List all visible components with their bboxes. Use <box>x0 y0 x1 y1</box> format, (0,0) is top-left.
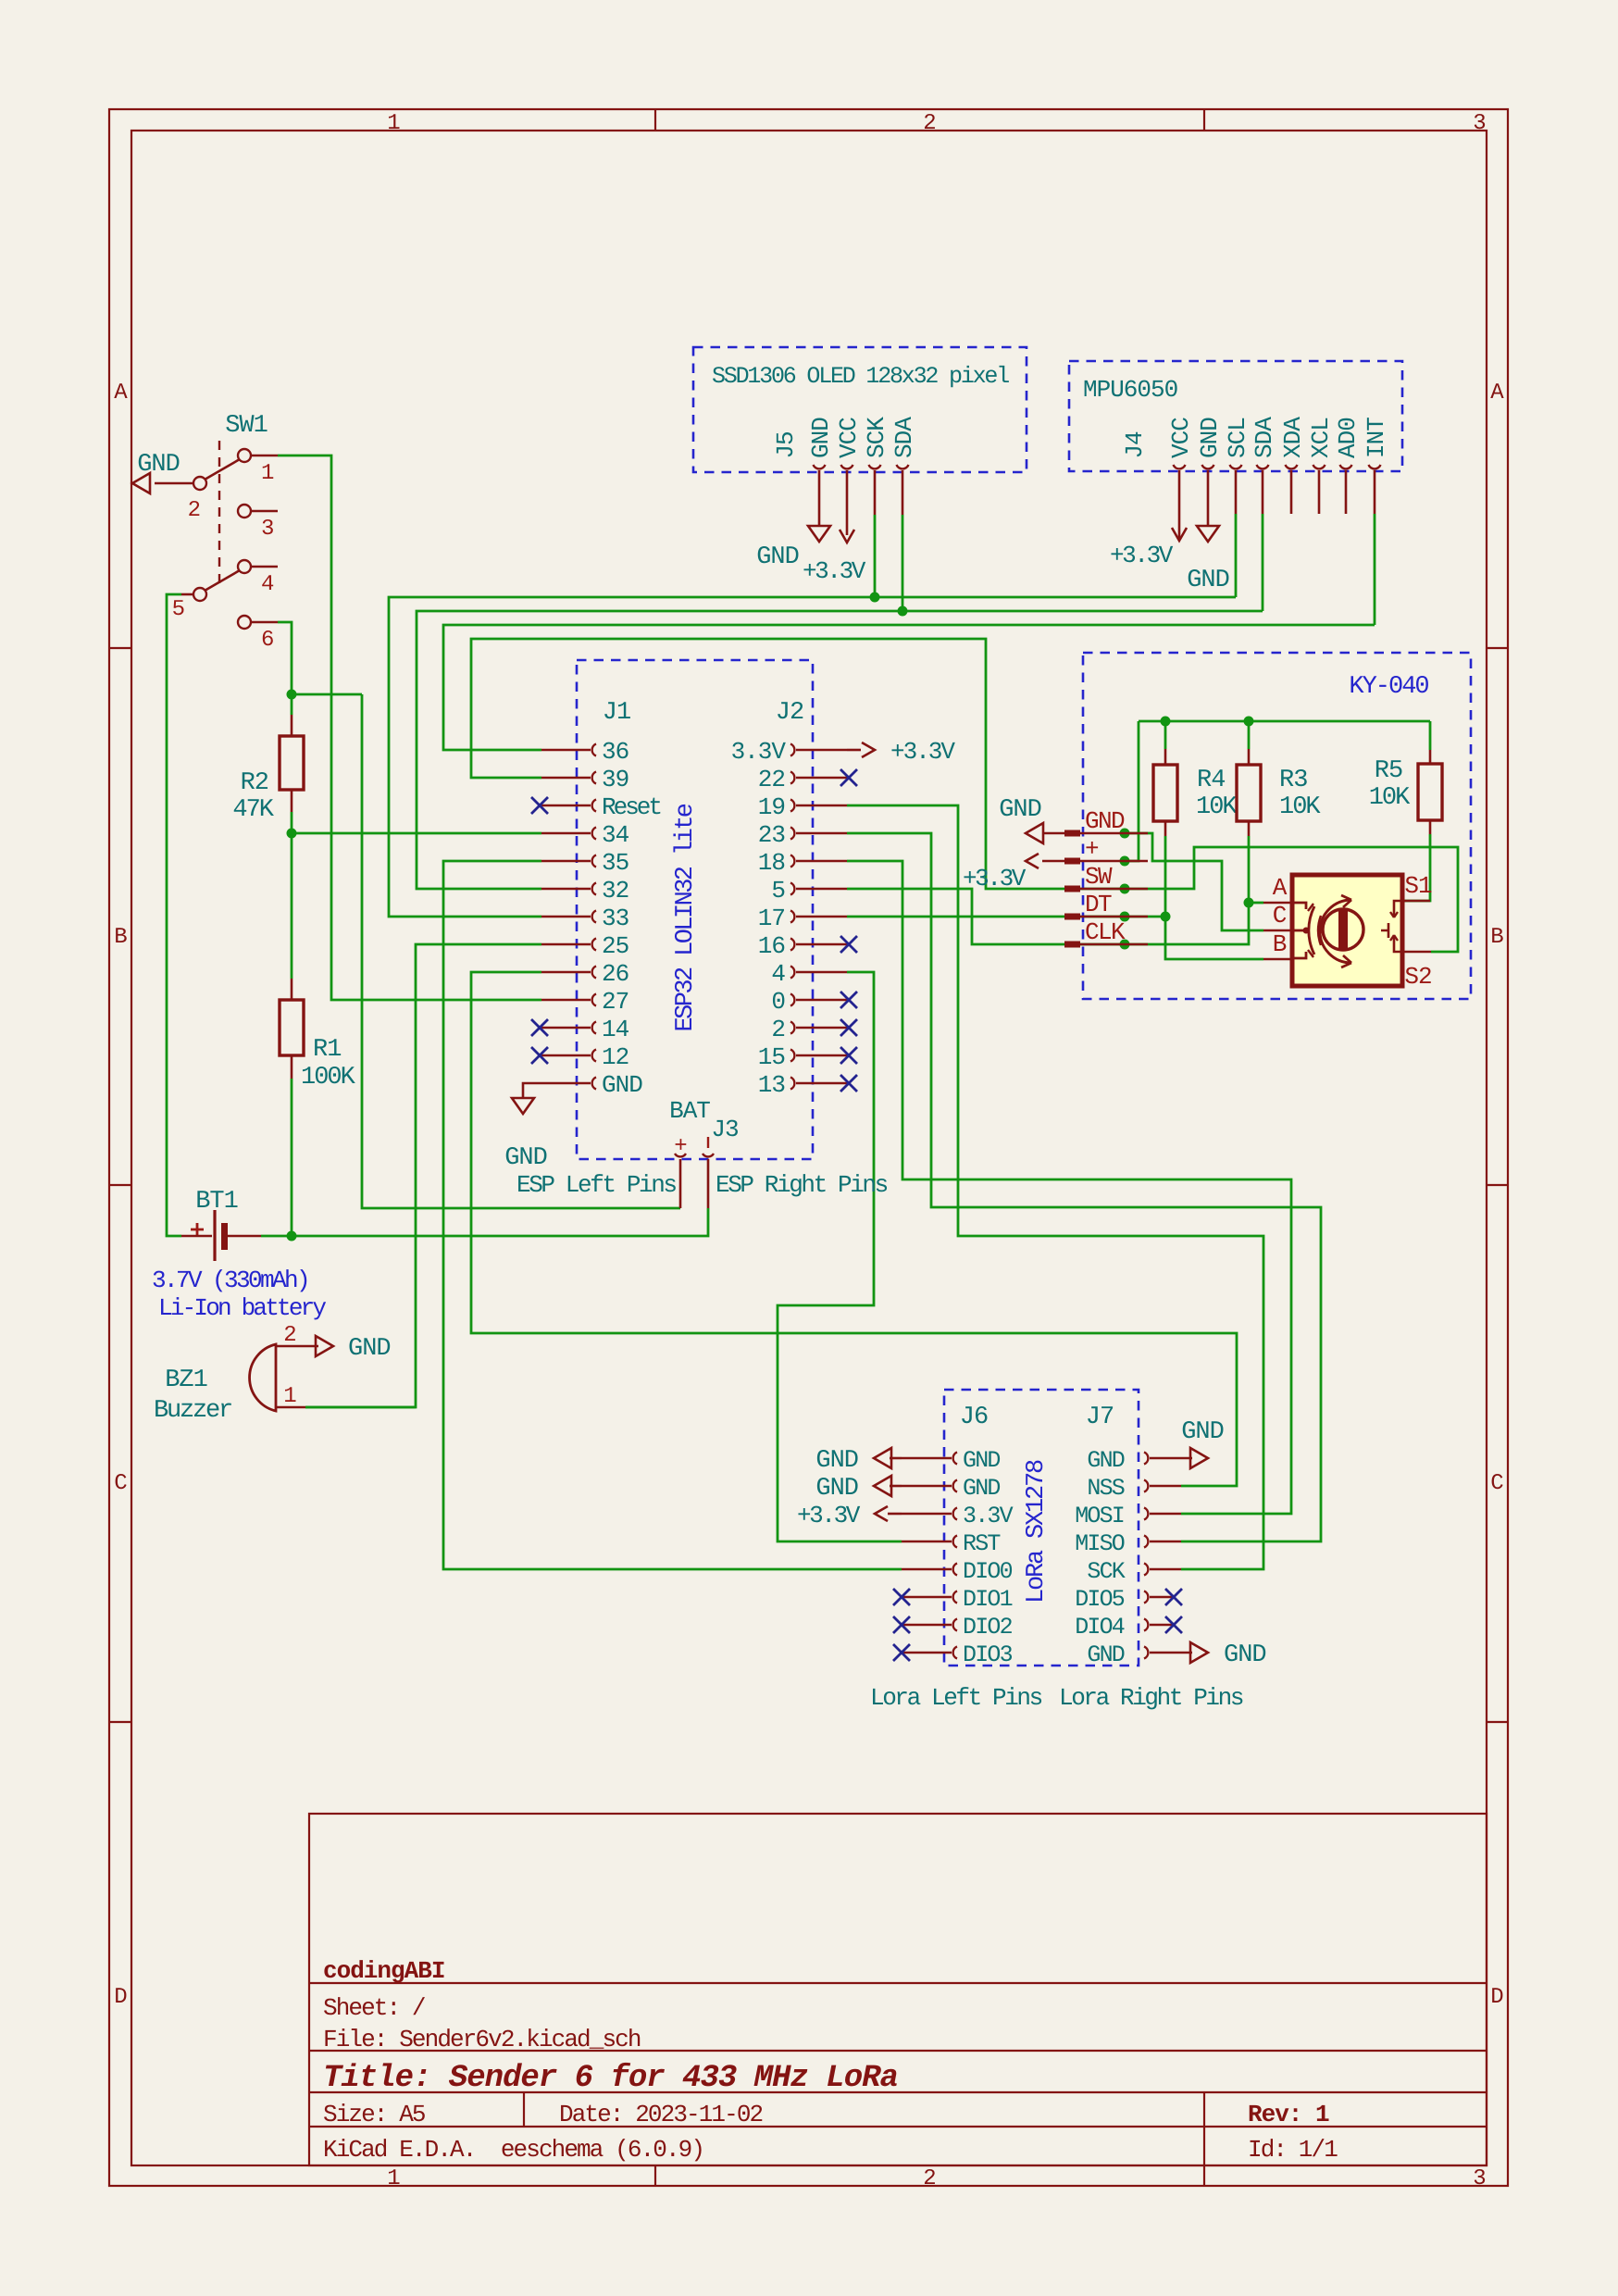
connector J1 pin Reset <box>541 805 591 807</box>
svg-text:A: A <box>1490 381 1504 406</box>
junction R2 top node <box>287 690 297 700</box>
ESP32 LOLIN32 dashed body box <box>577 660 813 1159</box>
power symbol GND at KY GND pin <box>1042 832 1064 835</box>
wire R5 top <box>1429 721 1432 750</box>
rotary encoder pin A <box>1263 902 1292 905</box>
no-connect X at DIO3 <box>893 1644 910 1661</box>
svg-text:SDA: SDA <box>890 417 918 458</box>
wire ESP pin26 to LoRa NSS <box>471 972 1237 1486</box>
svg-text:2: 2 <box>188 498 200 523</box>
svg-text:2: 2 <box>923 111 935 136</box>
svg-text:KY-040: KY-040 <box>1349 673 1428 701</box>
svg-text:Li-Ion battery: Li-Ion battery <box>158 1294 326 1322</box>
svg-text:DIO5: DIO5 <box>1075 1586 1125 1613</box>
svg-text:3: 3 <box>261 517 273 542</box>
svg-text:J3: J3 <box>711 1116 738 1143</box>
connector J1 pin 12 <box>541 1054 591 1057</box>
power symbol GND at LoRa left pin 1 <box>874 1448 891 1468</box>
switch SW1 arm 4-5 <box>205 570 240 591</box>
svg-text:+3.3V: +3.3V <box>963 865 1027 892</box>
svg-text:R1: R1 <box>313 1036 341 1064</box>
svg-text:6: 6 <box>261 628 273 653</box>
svg-text:GND: GND <box>137 451 180 479</box>
svg-text:GND: GND <box>1196 418 1224 458</box>
wire KY bus to plus pin <box>1125 721 1139 861</box>
rotary encoder switch S contacts <box>1394 901 1402 916</box>
rotary encoder pin S1 <box>1403 900 1430 903</box>
svg-text:35: 35 <box>602 849 629 877</box>
power symbol +3.3V at ESP 3.3V pin <box>847 749 861 752</box>
svg-text:3.7V (330mAh): 3.7V (330mAh) <box>152 1267 308 1294</box>
svg-text:5: 5 <box>172 597 184 622</box>
KY-040 connector pin SW <box>1064 886 1080 892</box>
no-connect X at J2 pin 22 <box>840 769 857 786</box>
svg-text:100K: 100K <box>301 1064 356 1092</box>
wire R1 to battery node <box>291 1079 293 1236</box>
svg-text:47K: 47K <box>232 796 274 824</box>
wire R3 top <box>1248 721 1251 749</box>
svg-text:ESP Right Pins: ESP Right Pins <box>716 1171 888 1199</box>
resistor R3 <box>1248 749 1251 765</box>
svg-text:Buzzer: Buzzer <box>154 1397 231 1425</box>
junction R3 bus <box>1244 717 1254 727</box>
svg-text:J4: J4 <box>1121 431 1149 459</box>
KY-040 dashed box <box>1083 653 1471 999</box>
wire SW1 pin5 to BT1 plus <box>167 594 181 1236</box>
svg-text:34: 34 <box>602 821 629 849</box>
resistor R2 <box>291 715 293 736</box>
svg-text:Rev: 1: Rev: 1 <box>1248 2101 1329 2128</box>
svg-text:J7: J7 <box>1086 1404 1114 1431</box>
svg-text:3: 3 <box>1473 111 1485 136</box>
power symbol GND below OLED <box>808 526 830 542</box>
junction node 34 <box>287 829 297 839</box>
svg-text:GND: GND <box>963 1447 1000 1474</box>
svg-text:R2: R2 <box>241 769 268 797</box>
switch SW1 pin circles <box>238 449 251 462</box>
title block outline <box>309 1814 1487 2165</box>
rotary encoder body <box>1292 875 1402 986</box>
power symbol +3.3V below MPU VCC <box>1172 528 1187 541</box>
connector J1 pin 25 <box>541 943 591 946</box>
no-connect X at J2 pin 0 <box>840 992 857 1008</box>
svg-text:1: 1 <box>283 1384 296 1409</box>
wire ESP pin4 to LoRa RST <box>778 972 902 1541</box>
connector J1 pin GND <box>541 1082 591 1085</box>
svg-text:SW: SW <box>1085 863 1113 891</box>
svg-text:GND: GND <box>1087 1641 1124 1668</box>
no-connect X at DIO5 <box>1165 1589 1182 1605</box>
junction KY CLK <box>1120 940 1130 950</box>
junction R3 A node <box>1244 898 1254 908</box>
junction OLED SDA <box>898 606 908 617</box>
power symbol GND at buzzer <box>316 1336 333 1356</box>
junction battery node <box>287 1231 297 1242</box>
wire OLED SCK drop <box>874 515 877 597</box>
svg-text:GND: GND <box>963 1475 1000 1502</box>
svg-text:BT1: BT1 <box>195 1188 238 1216</box>
power symbol +3.3V below OLED <box>840 530 854 543</box>
connector J1 pin 14 <box>541 1027 591 1029</box>
svg-text:File: Sender6v2.kicad_sch: File: Sender6v2.kicad_sch <box>323 2026 641 2053</box>
svg-text:+3.3V: +3.3V <box>1110 542 1174 569</box>
wire R2 bottom to node 34 <box>291 812 293 833</box>
svg-text:+: + <box>1085 835 1099 863</box>
resistor R5 <box>1429 750 1432 764</box>
connector J6 pin GND <box>902 1457 952 1460</box>
wire ESP pin32 to SDA bus <box>417 611 1263 889</box>
connector J1 pin 39 <box>541 777 591 780</box>
KY-040 connector pin DT <box>1064 914 1080 920</box>
wire ESP pin35 to LoRa DIO0 <box>443 861 902 1569</box>
svg-text:3.3V: 3.3V <box>963 1503 1014 1529</box>
MPU6050 dashed box <box>1069 361 1402 471</box>
svg-text:R5: R5 <box>1375 757 1402 785</box>
svg-text:3: 3 <box>1473 2166 1485 2191</box>
KY-040 connector pin GND <box>1064 830 1080 837</box>
svg-text:10K: 10K <box>1196 793 1238 821</box>
svg-text:BZ1: BZ1 <box>165 1366 207 1394</box>
junction R4 bus <box>1161 717 1171 727</box>
svg-text:D: D <box>114 1985 127 2010</box>
svg-text:39: 39 <box>602 766 629 793</box>
svg-text:B: B <box>114 925 127 950</box>
junction KY GND <box>1120 829 1130 839</box>
svg-text:S2: S2 <box>1404 963 1431 991</box>
wire DT node to encoder B <box>1165 917 1263 959</box>
svg-text:SW1: SW1 <box>225 412 268 440</box>
svg-text:27: 27 <box>602 988 629 1016</box>
svg-text:2: 2 <box>771 1016 785 1043</box>
power symbol +3.3V at LoRa 3.3V pin <box>875 1506 888 1521</box>
wire R3 bottom to A node <box>1248 836 1251 903</box>
svg-text:XDA: XDA <box>1279 417 1307 458</box>
svg-text:D: D <box>1490 1985 1503 2010</box>
wire R4 top <box>1164 721 1167 749</box>
junction KY plus <box>1120 856 1130 867</box>
svg-text:GND: GND <box>1181 1418 1224 1446</box>
connector J1 pin 33 <box>541 916 591 918</box>
connector J1 pin 26 <box>541 971 591 974</box>
wire R2 node to BAT rail <box>292 693 362 696</box>
no-connect X at J1 Reset <box>531 797 548 814</box>
switch SW1 arm 1-2 <box>205 459 240 480</box>
connector J1 pin 32 <box>541 888 591 891</box>
svg-text:22: 22 <box>758 766 785 793</box>
junction OLED SCK <box>870 593 880 603</box>
battery BT1 symbol <box>213 1210 216 1261</box>
svg-text:R4: R4 <box>1197 767 1225 794</box>
wire MPU INT drop <box>1374 514 1376 625</box>
svg-text:VCC: VCC <box>835 418 863 458</box>
svg-text:Lora Right Pins: Lora Right Pins <box>1059 1684 1243 1712</box>
svg-text:GND: GND <box>504 1144 547 1172</box>
no-connect X at DIO1 <box>893 1589 910 1605</box>
svg-text:Date: 2023-11-02: Date: 2023-11-02 <box>559 2101 763 2128</box>
svg-text:XCL: XCL <box>1307 418 1335 458</box>
svg-text:CLK: CLK <box>1085 918 1126 946</box>
connector J6 pin DIO2 <box>902 1624 952 1627</box>
junction R4 DT node <box>1161 912 1171 922</box>
connector J1 pin 36 <box>541 749 591 752</box>
svg-text:4: 4 <box>261 572 274 597</box>
svg-text:S1: S1 <box>1404 872 1432 900</box>
rotary encoder pin B <box>1263 958 1292 961</box>
connector J6 pin DIO0 <box>902 1568 952 1571</box>
power symbol GND at LoRa left pin 2 <box>874 1476 891 1496</box>
wire ESP pin33 to SCL bus <box>389 597 1236 917</box>
svg-text:GND: GND <box>1224 1641 1266 1669</box>
no-connect X at J2 pin 13 <box>840 1075 857 1092</box>
svg-text:ESP32 LOLIN32 lite: ESP32 LOLIN32 lite <box>672 804 700 1031</box>
wire MPU SCL drop <box>1235 514 1238 597</box>
svg-text:BAT: BAT <box>669 1097 710 1125</box>
wire node34 to R1 <box>291 833 293 979</box>
KY-040 connector pin + <box>1064 858 1080 865</box>
svg-text:J6: J6 <box>960 1404 988 1431</box>
svg-text:J2: J2 <box>776 699 803 727</box>
svg-text:1: 1 <box>261 461 274 486</box>
power symbol GND below MPU GND <box>1197 526 1219 542</box>
svg-text:SCK: SCK <box>863 417 890 458</box>
svg-text:MPU6050: MPU6050 <box>1083 376 1177 404</box>
svg-text:SCK: SCK <box>1087 1558 1125 1585</box>
connector J1 pin 34 <box>541 832 591 835</box>
buzzer BZ1 symbol <box>250 1344 276 1411</box>
svg-text:Title: Sender 6 for 433 MHz Lo: Title: Sender 6 for 433 MHz LoRa <box>323 2061 898 2096</box>
no-connect X at J1 pin14 <box>531 1019 548 1036</box>
svg-text:16: 16 <box>758 932 785 960</box>
svg-text:ESP Left Pins: ESP Left Pins <box>517 1171 676 1199</box>
connector J1 pin 35 <box>541 860 591 863</box>
wire SW1 pin6 to R2 node <box>278 622 292 694</box>
rotary encoder pin S2 <box>1403 951 1431 954</box>
connector J1 pin 27 <box>541 999 591 1002</box>
wire R5 bottom to S1 <box>1403 834 1430 901</box>
rotary encoder pin C <box>1263 930 1292 932</box>
wire MPU SDA drop <box>1262 514 1264 611</box>
svg-text:4: 4 <box>771 960 785 988</box>
svg-text:14: 14 <box>602 1016 629 1043</box>
wire ESP pin23 to LoRa MISO <box>847 833 1321 1541</box>
connector J6 pin RST <box>902 1541 952 1543</box>
svg-text:LoRa SX1278: LoRa SX1278 <box>1023 1460 1051 1603</box>
svg-text:RST: RST <box>963 1530 1001 1557</box>
svg-text:C: C <box>1273 902 1287 930</box>
junction KY SW <box>1120 884 1130 894</box>
svg-text:26: 26 <box>602 960 629 988</box>
svg-text:R3: R3 <box>1279 767 1307 794</box>
svg-text:15: 15 <box>758 1043 785 1071</box>
wire ESP pin39 to KY SW <box>471 639 1125 889</box>
svg-text:KiCad E.D.A. eeschema (6.0.9): KiCad E.D.A. eeschema (6.0.9) <box>323 2136 703 2164</box>
power symbol GND at SW1 <box>132 473 150 493</box>
svg-text:GND: GND <box>1087 1447 1124 1474</box>
wire ESP pin17 to KY DT <box>847 916 1165 918</box>
svg-text:DIO4: DIO4 <box>1075 1614 1125 1641</box>
wire A node to encoder A <box>1249 902 1263 905</box>
svg-text:B: B <box>1273 930 1287 958</box>
connector J6 pin DIO3 <box>902 1652 952 1654</box>
wire OLED SDA drop <box>902 515 904 611</box>
LoRa SX1278 dashed box <box>944 1390 1139 1666</box>
svg-text:10K: 10K <box>1369 784 1411 812</box>
svg-text:+3.3V: +3.3V <box>797 1502 861 1529</box>
svg-text:0: 0 <box>771 988 785 1016</box>
svg-text:13: 13 <box>758 1071 785 1099</box>
svg-text:GND: GND <box>602 1071 642 1099</box>
border zone ticks <box>654 109 656 131</box>
no-connect X at J1 pin12 <box>531 1047 548 1064</box>
svg-text:1: 1 <box>387 111 400 136</box>
svg-text:10K: 10K <box>1279 793 1321 821</box>
svg-text:GND: GND <box>1085 807 1125 835</box>
svg-text:25: 25 <box>602 932 629 960</box>
svg-text:+3.3V: +3.3V <box>890 738 955 766</box>
rotary encoder contact bracket arcs <box>1309 906 1314 955</box>
no-connect X at J2 pin 16 <box>840 936 857 953</box>
svg-text:33: 33 <box>602 905 629 932</box>
rotary encoder A C B contact hooks <box>1292 903 1306 909</box>
svg-text:18: 18 <box>758 849 785 877</box>
sheet border inner frame <box>131 131 1487 2165</box>
svg-text:23: 23 <box>758 821 785 849</box>
wire KY 3V3 bus <box>1139 720 1430 723</box>
power symbol GND at LoRa right GND bottom <box>1190 1642 1208 1663</box>
svg-text:3.3V: 3.3V <box>731 738 787 766</box>
svg-text:36: 36 <box>602 738 629 766</box>
battery BT1 plus sign <box>191 1223 204 1236</box>
no-connect X at DIO4 <box>1165 1616 1182 1633</box>
svg-text:NSS: NSS <box>1087 1475 1124 1502</box>
power symbol GND at ESP GND pin <box>523 1083 541 1098</box>
svg-text:Size: A5: Size: A5 <box>323 2101 425 2128</box>
wire KY GND to encoder C <box>1125 833 1263 930</box>
sheet border outer frame <box>109 109 1508 2186</box>
svg-text:C: C <box>1490 1471 1503 1496</box>
svg-text:B: B <box>1490 925 1503 950</box>
svg-text:GND: GND <box>807 418 835 458</box>
svg-text:SDA: SDA <box>1251 417 1278 458</box>
junction KY DT <box>1120 912 1130 922</box>
svg-text:Sheet: /: Sheet: / <box>323 1994 426 2022</box>
svg-text:DIO2: DIO2 <box>963 1614 1013 1641</box>
svg-text:2: 2 <box>283 1323 295 1348</box>
svg-text:32: 32 <box>602 877 629 905</box>
resistor R1 <box>291 979 293 1000</box>
switch SW1 pin stubs <box>250 455 278 457</box>
no-connect X at J2 pin 15 <box>840 1047 857 1064</box>
wire R2 top <box>291 694 293 715</box>
svg-text:GND: GND <box>348 1335 391 1363</box>
connector J6 pin 3.3V <box>902 1513 952 1516</box>
svg-text:AD0: AD0 <box>1334 418 1362 458</box>
wire node34 to ESP pin34 <box>292 832 541 835</box>
wire KY SW to encoder S2 <box>1125 847 1458 952</box>
svg-text:C: C <box>114 1471 127 1496</box>
svg-text:5: 5 <box>771 877 785 905</box>
svg-text:J5: J5 <box>772 431 800 458</box>
connector J6 pin GND <box>902 1485 952 1488</box>
svg-text:J1: J1 <box>603 699 630 727</box>
connector J6 pin DIO1 <box>902 1596 952 1599</box>
svg-text:12: 12 <box>602 1043 629 1071</box>
svg-text:VCC: VCC <box>1167 418 1195 458</box>
wire BAT rail to ESP BAT pin <box>362 694 680 1208</box>
SSD1306 OLED dashed box <box>693 347 1027 472</box>
svg-text:MISO: MISO <box>1075 1530 1125 1557</box>
svg-text:GND: GND <box>756 543 799 571</box>
svg-text:19: 19 <box>758 793 785 821</box>
svg-text:DIO0: DIO0 <box>963 1558 1013 1585</box>
buzzer BZ1 pin 1 <box>276 1406 305 1409</box>
svg-text:GND: GND <box>1187 567 1229 594</box>
svg-text:Id: 1/1: Id: 1/1 <box>1248 2136 1338 2164</box>
switch SW1 coupler dashed line <box>218 441 220 587</box>
buzzer BZ1 pin 2 <box>276 1345 318 1348</box>
svg-text:DT: DT <box>1085 891 1112 918</box>
wire ESP pin25 to buzzer <box>305 944 541 1407</box>
svg-text:INT: INT <box>1363 418 1390 458</box>
svg-text:Lora Left Pins: Lora Left Pins <box>870 1684 1042 1712</box>
wire ESP pin5 to KY CLK to R3 <box>847 889 1249 944</box>
rotary encoder rotation arc <box>1320 900 1351 963</box>
svg-text:DIO1: DIO1 <box>963 1586 1013 1613</box>
svg-text:SCL: SCL <box>1224 418 1251 458</box>
wire R4 bottom to DT node <box>1164 836 1167 917</box>
svg-text:SSD1306 OLED 128x32 pixel: SSD1306 OLED 128x32 pixel <box>712 363 1009 390</box>
svg-text:MOSI: MOSI <box>1075 1503 1124 1529</box>
no-connect X at J2 pin 2 <box>840 1019 857 1036</box>
svg-text:1: 1 <box>387 2166 400 2191</box>
rotary encoder shaft circle <box>1323 909 1363 950</box>
svg-text:A: A <box>114 381 128 406</box>
svg-text:2: 2 <box>923 2166 935 2191</box>
wire ESP pin36 to MPU INT <box>443 625 1375 750</box>
svg-text:GND: GND <box>815 1475 858 1503</box>
KY-040 connector pin CLK <box>1064 942 1080 948</box>
wire ESP pin18 to LoRa MOSI <box>847 861 1291 1514</box>
wire battery to ESP minus pin <box>261 1208 708 1236</box>
wire buzzer pin1 stub <box>305 1406 416 1409</box>
svg-text:DIO3: DIO3 <box>963 1641 1013 1668</box>
svg-text:17: 17 <box>758 905 785 932</box>
svg-text:A: A <box>1273 874 1288 902</box>
svg-text:Reset: Reset <box>602 793 660 821</box>
power symbol +3.3V at KY plus pin <box>1042 860 1064 863</box>
wire ESP pin19 to LoRa SCK <box>847 805 1263 1569</box>
svg-text:codingABI: codingABI <box>323 1957 444 1985</box>
svg-text:GND: GND <box>999 796 1041 824</box>
no-connect X at DIO2 <box>893 1616 910 1633</box>
svg-text:GND: GND <box>815 1447 858 1475</box>
wire SW1 pin1 to ESP27 <box>278 455 541 1000</box>
svg-text:+3.3V: +3.3V <box>803 557 866 585</box>
resistor R4 <box>1164 749 1167 765</box>
power symbol GND at LoRa right GND top <box>1190 1448 1208 1468</box>
